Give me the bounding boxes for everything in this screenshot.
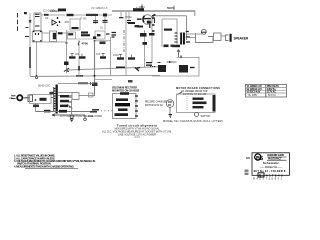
wire primary bottom bbox=[36, 111, 91, 113]
V2 plate bar bbox=[144, 18, 151, 20]
svg-text:Schematic: Schematic bbox=[263, 161, 279, 165]
junction dot on left rail bbox=[66, 42, 68, 44]
switch box bbox=[30, 94, 52, 103]
svg-text:SWITCH: SWITCH bbox=[201, 115, 211, 118]
blob above primary bbox=[50, 92, 55, 95]
right column dashes bbox=[69, 97, 72, 107]
resistor R11 bbox=[60, 105, 68, 108]
V2 top right tick bbox=[152, 14, 155, 16]
left contact marks bbox=[146, 63, 152, 66]
svg-text:MODEL 511 CHASSIS RUNS (FULL L: MODEL 511 CHASSIS RUNS (FULL LITTER) bbox=[163, 119, 223, 123]
top B+ rail bbox=[112, 10, 195, 12]
right edge bar bbox=[213, 95, 216, 112]
volume squiggle bbox=[78, 42, 80, 46]
left stage rail bbox=[66, 30, 68, 73]
arrow on left rail bbox=[64, 68, 69, 72]
marks under tube bbox=[135, 25, 140, 27]
branch line right bbox=[95, 79, 113, 81]
plug prong lines bbox=[11, 96, 16, 99]
wire below detector row bbox=[68, 38, 106, 40]
phono tube circle bbox=[166, 100, 174, 108]
resistor R3 bbox=[86, 14, 98, 16]
label V1 bbox=[58, 9, 66, 12]
stub x105 down bbox=[104, 17, 106, 30]
svg-text:12BE6: 12BE6 bbox=[50, 9, 59, 13]
main ground bus bbox=[30, 75, 160, 76]
antenna terminal mark bbox=[24, 12, 27, 14]
avc caps bbox=[112, 33, 117, 38]
dial cord drop bbox=[84, 115, 86, 118]
loop antenna L1 bbox=[34, 13, 41, 31]
T1 winding dots bbox=[33, 32, 42, 41]
dial cord arrow bbox=[52, 114, 85, 116]
title block frame bbox=[252, 153, 290, 176]
svg-text:B 4 0 1 7 2 5 8 3 1: B 4 0 1 7 2 5 8 3 1 bbox=[253, 177, 283, 181]
filter box bbox=[72, 93, 79, 100]
wire primary top bbox=[51, 97, 54, 99]
vertical to bus bbox=[71, 100, 73, 115]
secondary row 1 bbox=[60, 95, 69, 98]
top bar bbox=[120, 92, 129, 95]
rail A bbox=[67, 67, 159, 70]
svg-text:50C5: 50C5 bbox=[167, 6, 174, 10]
ground under pilot bbox=[70, 119, 74, 122]
transformer right marks bbox=[186, 32, 190, 43]
vertical x79 bbox=[78, 40, 80, 77]
oscillator coil T2 can bbox=[50, 31, 57, 42]
tube pin dots bbox=[58, 17, 60, 26]
underline 2 bbox=[267, 159, 287, 161]
transistor blob Q1 bbox=[158, 65, 166, 72]
output tube V3 label ticks bbox=[152, 18, 155, 31]
resistor R8 with stub bbox=[117, 57, 124, 59]
stub and cap at x95.5 bbox=[95, 16, 97, 24]
wire: center vertical bbox=[94, 41, 96, 96]
wire: B+ feed bbox=[74, 14, 113, 16]
phone jack circle bbox=[201, 29, 206, 34]
diode blob lower bbox=[81, 34, 90, 36]
IF transformer T1 can bbox=[32, 31, 42, 42]
svg-text:470K: 470K bbox=[82, 42, 89, 46]
resistor R10 bbox=[60, 100, 69, 103]
rail A dark segment bbox=[116, 66, 125, 68]
output transformer primary bar bbox=[180, 33, 182, 45]
output transformer secondary bar bbox=[183, 33, 185, 45]
speaker element bar bbox=[230, 34, 232, 42]
IF tube V2 envelope bbox=[143, 15, 153, 25]
junction blob before rail bbox=[103, 14, 107, 17]
V2 left arc dark bbox=[143, 16, 145, 22]
variable capacitor C1A arrow bbox=[29, 20, 31, 22]
L1 coil marks bbox=[35, 14, 40, 26]
V2 side pin bbox=[154, 18, 156, 24]
underline 1 bbox=[267, 156, 287, 158]
box inner top segment bbox=[164, 29, 172, 31]
contacts row1 bbox=[193, 98, 204, 100]
wire filter to rect bbox=[79, 95, 95, 97]
svg-text:4. MEASUREMENTS TAKEN WITH CHA: 4. MEASUREMENTS TAKEN WITH CHASSIS OPERA… bbox=[14, 165, 74, 168]
contacts row2 bbox=[193, 102, 207, 105]
caption changer diagonal bbox=[178, 92, 183, 95]
wire down to bottom bbox=[35, 103, 37, 111]
rectifier block frame bbox=[113, 94, 137, 119]
antenna lead-in dashed wire bbox=[17, 13, 19, 32]
small stamp box bbox=[258, 173, 264, 177]
logo circle bbox=[255, 154, 261, 160]
right edge ticks bbox=[135, 96, 138, 116]
interlock box bbox=[28, 95, 33, 101]
box top tick bbox=[180, 56, 182, 59]
volume corner mark bbox=[93, 36, 96, 39]
V2 label bbox=[133, 8, 144, 11]
small blob bbox=[100, 42, 106, 45]
jack loop bbox=[196, 33, 214, 43]
svg-text:220: 220 bbox=[75, 53, 80, 56]
padder capacitor C3 bbox=[58, 32, 63, 34]
x79 dark seg bbox=[78, 66, 80, 71]
svg-text:2 3 4: 2 3 4 bbox=[134, 137, 140, 139]
resistor R12 bbox=[59, 110, 67, 113]
dark dashes end of wire bbox=[90, 110, 99, 112]
table rows bbox=[246, 87, 287, 93]
output stage box bbox=[162, 19, 177, 47]
volume wiper mark bbox=[97, 34, 101, 36]
speaker bracket bbox=[226, 35, 229, 41]
svg-text:IF 455: IF 455 bbox=[80, 19, 87, 21]
transistor blob Q2 bbox=[179, 65, 188, 73]
capacitor C4 plates bbox=[72, 27, 79, 29]
small box lower left of center bbox=[89, 93, 94, 97]
diagonal wire bbox=[67, 104, 73, 109]
svg-text:10K: 10K bbox=[96, 53, 101, 56]
pilot lamp circle bbox=[70, 115, 73, 118]
plug body bbox=[17, 95, 22, 100]
screen bypass box bbox=[70, 19, 80, 30]
coupling cap C8 bbox=[140, 33, 147, 37]
primary winding line bbox=[53, 87, 55, 112]
antenna coupling marks bbox=[25, 28, 29, 37]
tick bbox=[173, 6, 175, 11]
stub x121 bbox=[120, 12, 122, 17]
wiper arrow blob bbox=[135, 68, 140, 72]
rail drop right bbox=[194, 11, 196, 16]
phono section box bbox=[152, 58, 199, 77]
wire: antenna down-lead bbox=[29, 13, 31, 47]
tick right of volume bbox=[106, 33, 110, 35]
avc line vertical bbox=[110, 37, 112, 76]
resistor R6 with stub bbox=[79, 56, 86, 58]
pilot circle on bus bbox=[36, 77, 38, 79]
V2 cathode drop bbox=[149, 24, 151, 28]
svg-text:B+ 105V: B+ 105V bbox=[249, 94, 258, 97]
plug cord bbox=[24, 97, 30, 99]
contact marks 2 bbox=[190, 67, 195, 69]
box bottom dark bar bbox=[172, 45, 180, 47]
resistor R5 with stub bbox=[69, 56, 76, 58]
wire: IF plate drop bbox=[125, 12, 127, 76]
dial pulley bbox=[84, 118, 87, 121]
winding bumps bbox=[54, 89, 56, 109]
tick on secondary wire bbox=[90, 82, 92, 85]
svg-text:60 CYC: 60 CYC bbox=[268, 94, 276, 97]
dotted divider bbox=[186, 96, 188, 111]
wire: T1 ground drop bbox=[36, 42, 38, 76]
svg-text:V2 12BA6 I.F.: V2 12BA6 I.F. bbox=[91, 6, 108, 10]
wire: osc link top bbox=[41, 32, 66, 34]
switch dot bbox=[35, 99, 37, 101]
tone arrow up bbox=[177, 50, 180, 58]
T2 winding bbox=[53, 33, 56, 40]
svg-text:LINE VOLTAGE 117V AC POWER: LINE VOLTAGE 117V AC POWER bbox=[118, 133, 156, 136]
tube socket blob 2 bbox=[171, 45, 175, 47]
svg-text:Tuned circuit alignment: Tuned circuit alignment bbox=[117, 124, 157, 128]
small blob on bus2 bbox=[128, 80, 133, 83]
selenium plate 1 bbox=[116, 98, 128, 101]
blob on left rail bbox=[64, 62, 69, 66]
dark segment on secondary wire bbox=[78, 82, 88, 84]
voltage table frame bbox=[246, 85, 287, 98]
mixer triangle V1 grid bbox=[52, 20, 57, 25]
V2 left wire dark seg bbox=[137, 18, 142, 20]
bus dark segment 1 bbox=[76, 75, 83, 77]
phono tube stem bbox=[169, 108, 171, 115]
tube socket blobs bbox=[164, 45, 169, 48]
margin stamp 2 bbox=[245, 173, 249, 175]
svg-text:SPEAKER: SPEAKER bbox=[234, 37, 249, 41]
jack contact bar bbox=[201, 31, 207, 33]
electrolytic marks bbox=[92, 83, 98, 87]
notes underline bbox=[25, 168, 78, 170]
svg-text:C5: C5 bbox=[100, 28, 104, 30]
detector cap bar bbox=[68, 33, 73, 35]
svg-text:150K: 150K bbox=[113, 54, 119, 57]
switch marks bbox=[40, 98, 47, 101]
svg-text:47K: 47K bbox=[65, 20, 70, 24]
wire: output grid line bbox=[151, 16, 153, 63]
junction dot bbox=[94, 40, 96, 42]
marks on grid line bbox=[149, 33, 155, 36]
jack box bbox=[214, 33, 222, 41]
svg-text:DIAL CORD: DIAL CORD bbox=[88, 114, 102, 118]
svg-text:RECORD CHANGER: RECORD CHANGER bbox=[145, 101, 167, 104]
wire: dark drop segment bbox=[29, 47, 31, 68]
motor circle bbox=[195, 113, 199, 117]
resistor R1 bbox=[44, 14, 49, 16]
dotted link to rectifier bbox=[101, 110, 113, 112]
wire volume to avc bbox=[95, 40, 111, 42]
svg-text:MOTOR 115V AC: MOTOR 115V AC bbox=[145, 104, 163, 107]
resistor R2 bbox=[67, 14, 74, 16]
grid resistor marks bbox=[128, 22, 135, 24]
volume control box bbox=[95, 31, 105, 39]
junction dots bbox=[94, 75, 96, 77]
svg-text:MOUNTED ON CHASSIS: MOUNTED ON CHASSIS bbox=[112, 89, 140, 92]
second rail bbox=[155, 16, 187, 40]
shield dash-dot line bbox=[123, 30, 125, 52]
wire: AF coupling vertical bbox=[144, 30, 146, 67]
V2 inner blob bbox=[147, 21, 151, 24]
selenium plate 3 bbox=[118, 108, 128, 111]
cathode resistor marks bbox=[137, 26, 143, 28]
svg-text:C2: C2 bbox=[45, 16, 49, 20]
wire: speaker leads bbox=[186, 34, 203, 38]
svg-text:455KC: 455KC bbox=[125, 17, 132, 19]
arrowhead bbox=[169, 61, 172, 63]
wire: drop to bus bbox=[29, 68, 31, 76]
grid leak blob bbox=[143, 42, 148, 45]
contacts row3 bbox=[193, 106, 204, 108]
wire: grid coupling bbox=[41, 14, 65, 16]
ground blob bbox=[169, 115, 173, 118]
phono tube inner mark bbox=[168, 102, 172, 105]
below-switch marks bbox=[33, 105, 39, 108]
rail A right marks bbox=[150, 66, 156, 68]
diode blob upper bbox=[81, 32, 88, 34]
detector coupling box bbox=[68, 32, 76, 39]
wire with arrow bbox=[167, 61, 177, 63]
cap pair x129 bbox=[128, 12, 130, 20]
secondary top loop bbox=[58, 84, 95, 96]
selenium plate 2 bbox=[115, 103, 130, 106]
svg-text:50-60 CYC: 50-60 CYC bbox=[38, 85, 51, 88]
marks above Q1 bbox=[158, 62, 161, 64]
margin stamp 1 bbox=[245, 170, 249, 172]
wire: bottom of cans bbox=[32, 41, 66, 43]
power transformer core bar bbox=[56, 85, 58, 114]
resistor fuse bbox=[44, 110, 51, 113]
bottom bar bbox=[115, 113, 129, 116]
junction dot bbox=[36, 75, 38, 77]
wire to speaker bbox=[221, 35, 225, 37]
resistor R7 with stub bbox=[100, 56, 106, 58]
svg-text:—— MODEL 511 ——: —— MODEL 511 —— bbox=[260, 166, 283, 169]
tube grid marks bbox=[175, 33, 178, 42]
tick on rail bbox=[141, 5, 143, 11]
left margin marks bbox=[246, 157, 250, 159]
table divider vertical bbox=[265, 85, 267, 98]
resistor R9 with stub bbox=[128, 57, 135, 59]
changer box bbox=[177, 94, 216, 113]
